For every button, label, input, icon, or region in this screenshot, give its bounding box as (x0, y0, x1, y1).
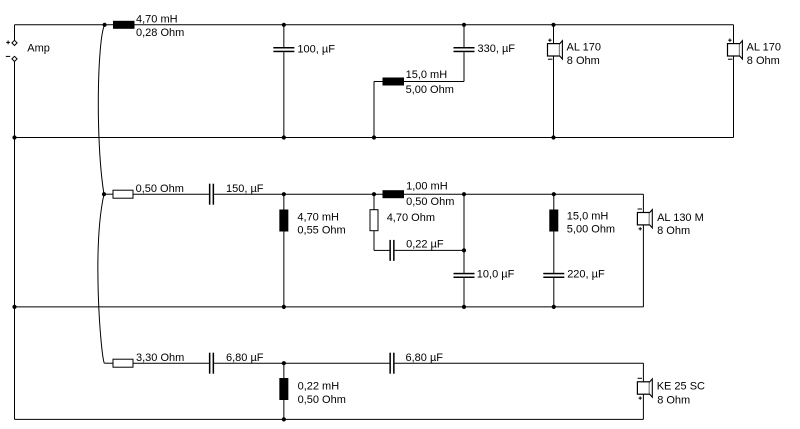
node 15mH bottom junction (372, 135, 376, 139)
capacitor 10,0 uF (454, 273, 475, 275)
svg-text:AL 170: AL 170 (747, 42, 781, 54)
wire 0,22uF cap to node (395, 249, 464, 251)
svg-text:15,0 mH: 15,0 mH (406, 69, 448, 81)
speaker AL 170 second (728, 44, 740, 56)
node 330uF top junction (462, 23, 466, 27)
speaker2 - pin (728, 58, 732, 60)
speaker1 - pin (548, 58, 552, 60)
wire 220uF branch lower (553, 278, 555, 307)
svg-text:0,55 Ohm: 0,55 Ohm (297, 224, 345, 236)
capacitor 330 uF (454, 47, 475, 49)
svg-text:Amp: Amp (27, 42, 50, 54)
wire mid rail left to resistor (104, 193, 113, 195)
svg-text:6,80 µF: 6,80 µF (406, 352, 444, 364)
node 10uF top junction (462, 192, 466, 196)
svg-text:0,22 µF: 0,22 µF (406, 239, 444, 251)
wire 10uF branch lower (463, 278, 465, 307)
wire 330uF branch upper (463, 25, 465, 47)
wire 15mH-220uF branch upper (553, 194, 555, 273)
wire mid rail right end down (642, 194, 644, 212)
inductor 15,0 mH section 1 (383, 78, 405, 86)
node mid rail left junction (102, 192, 106, 196)
node RC branch top junction (372, 192, 376, 196)
wire bottom rail left corner to resistor (104, 362, 113, 364)
capacitor 6,80 uF first (209, 353, 211, 374)
wire mid rail cap to right end (214, 193, 643, 195)
node speaker1 top junction (551, 23, 555, 27)
wire 4,7mH branch (283, 194, 285, 307)
node mid bottom left junction (12, 305, 16, 309)
wire speaker AL170-1 top lead (553, 25, 555, 44)
wire 15mH inductor to bottom rail (374, 81, 383, 83)
wire 100uF branch upper (283, 25, 285, 47)
wire top rail section 1 (15, 24, 734, 26)
svg-text:4,70 mH: 4,70 mH (297, 212, 339, 224)
speaker3 - pin (638, 208, 642, 210)
capacitor 220 uF (543, 273, 564, 275)
resistor 3,30 Ohm (113, 359, 133, 367)
svg-text:3,30 Ohm: 3,30 Ohm (136, 352, 184, 364)
wire from - terminal down left return bus (14, 62, 16, 420)
node 100uF bottom junction (282, 135, 286, 139)
wire 10uF branch upper (463, 194, 465, 273)
capacitor 100 uF (273, 47, 294, 49)
svg-text:150, µF: 150, µF (226, 183, 264, 195)
node 100uF top junction (282, 23, 286, 27)
wire 0,22mH branch (283, 363, 285, 419)
wire bottom rail right end down (642, 363, 644, 382)
speaker4 + pin (639, 397, 642, 399)
inductor 4,70 mH shunt (279, 210, 288, 232)
node 0,22mH bottom junction (282, 417, 286, 421)
node RC to 10uF junction (462, 248, 466, 252)
svg-text:8 Ohm: 8 Ohm (747, 55, 780, 67)
speaker KE 25 SC (637, 382, 649, 394)
wire speaker AL170-2 top lead (733, 25, 735, 44)
wire curved feed mid-to-bottom (98, 194, 104, 363)
svg-text:1,00 mH: 1,00 mH (406, 181, 448, 193)
svg-text:220, µF: 220, µF (567, 269, 605, 281)
svg-text:0,50 Ohm: 0,50 Ohm (406, 196, 454, 208)
node 4,7mH bottom junction (282, 305, 286, 309)
speaker3 + pin (639, 228, 642, 230)
svg-text:0,22 mH: 0,22 mH (298, 380, 340, 392)
speaker2 + pin (728, 39, 731, 41)
wire cap to mid junction (214, 362, 389, 364)
amp + terminal (12, 40, 17, 45)
svg-text:5,00 Ohm: 5,00 Ohm (567, 224, 615, 236)
wire speaker2 bottom lead (733, 56, 735, 138)
wire RC resistor to cap (373, 231, 375, 251)
svg-text:100, µF: 100, µF (297, 43, 335, 55)
wire resistor to 150uF cap (134, 193, 209, 195)
node 220uF bottom junction (552, 305, 556, 309)
wire from + terminal up to top rail (14, 25, 16, 40)
node 10uF bottom junction (462, 305, 466, 309)
resistor 4,70 Ohm (370, 210, 378, 231)
node 0,22mH top junction (282, 361, 286, 365)
wire tweeter bottom lead (642, 394, 644, 419)
wire bottom return rail (15, 418, 644, 420)
amp - label (6, 55, 10, 57)
wire 100uF branch lower (283, 52, 285, 137)
svg-text:0,28 Ohm: 0,28 Ohm (136, 27, 184, 39)
svg-text:4,70 Ohm: 4,70 Ohm (387, 212, 435, 224)
svg-text:0,50 Ohm: 0,50 Ohm (136, 183, 184, 195)
svg-text:0,50 Ohm: 0,50 Ohm (298, 394, 346, 406)
capacitor 6,80 uF second (389, 353, 391, 374)
svg-text:8 Ohm: 8 Ohm (657, 225, 690, 237)
node feed junction top (103, 23, 107, 27)
speaker1 + pin (548, 39, 551, 41)
svg-text:8 Ohm: 8 Ohm (657, 394, 690, 406)
wire curved feed top-to-mid (98, 25, 104, 194)
amp - terminal (12, 56, 17, 61)
svg-text:15,0 mH: 15,0 mH (567, 211, 609, 223)
speaker4 - pin (638, 377, 642, 379)
resistor 0,50 Ohm (113, 190, 133, 198)
node bottom-left junction section 1 (12, 135, 16, 139)
wire resistor to 6,8uF cap (134, 362, 209, 364)
svg-text:AL 130 M: AL 130 M (657, 212, 704, 224)
inductor 4,70 mH on top rail (113, 21, 135, 29)
svg-text:6,80 µF: 6,80 µF (226, 352, 264, 364)
node speaker1 bottom junction (551, 135, 555, 139)
svg-text:4,70 mH: 4,70 mH (136, 13, 178, 25)
speaker AL 170 first (548, 44, 560, 56)
capacitor 150 uF (209, 184, 211, 205)
svg-text:330, µF: 330, µF (478, 43, 516, 55)
svg-text:8 Ohm: 8 Ohm (567, 55, 600, 67)
wire 330uF branch to inductor (463, 52, 465, 81)
svg-text:KE 25 SC: KE 25 SC (657, 381, 705, 393)
svg-text:5,00 Ohm: 5,00 Ohm (406, 84, 454, 96)
capacitor 0,22 uF (389, 240, 391, 261)
svg-text:AL 170: AL 170 (567, 42, 601, 54)
speaker AL 130 M (637, 213, 649, 225)
wire RC branch upper (373, 194, 375, 210)
svg-text:10,0 µF: 10,0 µF (477, 269, 515, 281)
node 15mH-220uF top junction (552, 192, 556, 196)
wire bottom top rail right part (395, 362, 644, 364)
inductor 1,00 mH on mid rail (383, 190, 405, 198)
amp + label (6, 41, 10, 43)
inductor 15,0 mH shunt (549, 210, 558, 232)
node 4,7mH top junction (282, 192, 286, 196)
inductor 0,22 mH shunt (279, 378, 288, 400)
wire mid speaker bottom lead (642, 225, 644, 307)
wire section 1 bottom rail (15, 137, 734, 139)
wire mid section bottom rail (15, 306, 644, 308)
wire speaker1 bottom lead (553, 56, 555, 138)
